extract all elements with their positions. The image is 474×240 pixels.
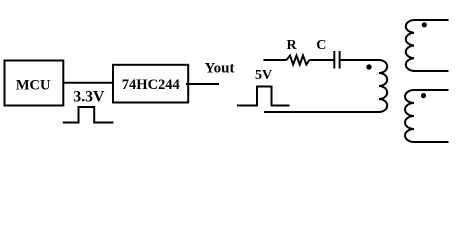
polarity dot primary — [366, 64, 371, 69]
transformer secondary winding 2 — [405, 90, 449, 142]
transformer primary winding — [379, 60, 387, 112]
pulse symbol 5V drive — [237, 87, 290, 106]
transformer secondary winding 1 — [406, 20, 449, 71]
svg-text:74HC244: 74HC244 — [122, 77, 180, 93]
wire Yout output — [186, 83, 219, 85]
polarity dot secondary 1 — [422, 22, 427, 27]
buffer U2 74HC244 — [113, 65, 188, 103]
svg-text:5V: 5V — [255, 68, 272, 83]
polarity dot secondary 2 — [421, 93, 426, 98]
svg-text:C: C — [316, 38, 326, 53]
wire resistor to capacitor — [310, 59, 335, 61]
svg-text:R: R — [287, 38, 298, 53]
MCU block U1 — [5, 61, 64, 106]
svg-text:MCU: MCU — [16, 77, 51, 93]
svg-text:3.3V: 3.3V — [73, 89, 105, 106]
wire MCU to 74HC244 — [63, 82, 114, 84]
resistor R — [287, 56, 310, 65]
pulse symbol 3.3V input — [63, 107, 114, 123]
wire top left segment — [264, 59, 287, 61]
wire capacitor to primary — [341, 59, 379, 61]
capacitor C plate left — [333, 51, 335, 69]
svg-text:Yout: Yout — [205, 60, 235, 76]
wire bottom return — [264, 111, 379, 113]
capacitor C plate right — [339, 51, 341, 69]
